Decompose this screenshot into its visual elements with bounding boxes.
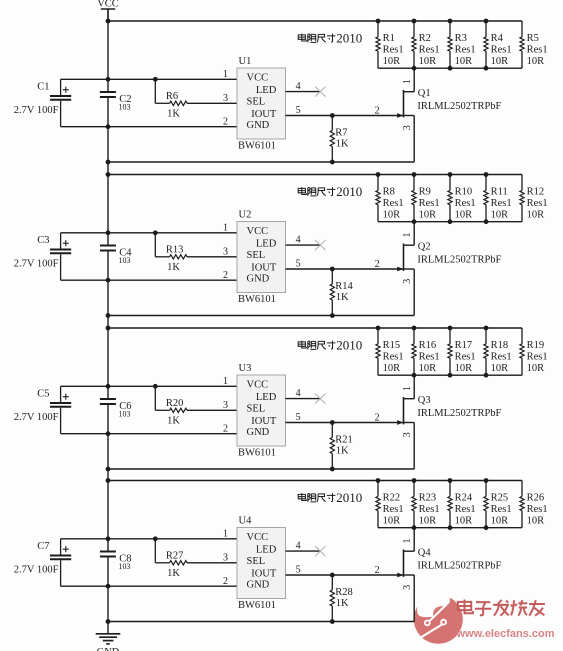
svg-text:SEL: SEL: [247, 404, 266, 415]
svg-text:3: 3: [223, 93, 228, 104]
junction top of R15: [376, 326, 381, 331]
capacitor C6: [100, 399, 132, 419]
svg-text:2: 2: [223, 117, 228, 128]
junction rail return block 4: [106, 619, 111, 624]
svg-text:IOUT: IOUT: [251, 568, 277, 579]
wire SEL pin 3 block 2: [187, 256, 237, 258]
svg-text:Res1: Res1: [419, 504, 440, 515]
svg-text:2: 2: [375, 259, 380, 270]
wire source return block 2: [108, 315, 414, 317]
svg-text:Res1: Res1: [527, 198, 548, 209]
svg-text:3: 3: [402, 279, 413, 284]
svg-text:U2: U2: [239, 209, 252, 220]
svg-text:2010: 2010: [336, 490, 362, 505]
svg-text:R10: R10: [455, 187, 473, 198]
IC U3 BW6101: [237, 363, 286, 458]
junction bottom of R2: [412, 66, 417, 71]
IC U4 BW6101: [237, 515, 286, 610]
junction R7 bottom: [330, 160, 335, 165]
svg-text:GND: GND: [247, 274, 270, 285]
svg-text:1K: 1K: [336, 446, 349, 457]
svg-text:10R: 10R: [419, 209, 437, 220]
svg-text:2: 2: [375, 413, 380, 424]
junction R14 top: [330, 267, 335, 272]
wire top rail block 1: [108, 20, 522, 22]
svg-text:4: 4: [296, 81, 301, 92]
capacitor C7: [14, 539, 71, 586]
svg-text:4: 4: [296, 541, 301, 552]
junction bottom of R4: [484, 66, 489, 71]
node VCC rail segment above C2: [107, 9, 109, 91]
svg-text:10R: 10R: [419, 56, 437, 67]
svg-text:R23: R23: [419, 493, 437, 504]
wire VCC pin row block 2: [61, 232, 237, 234]
svg-text:1K: 1K: [336, 598, 349, 609]
junction R27 tap: [153, 536, 158, 541]
resistor R5: [520, 21, 548, 68]
watermark logo elecfans: [414, 586, 463, 644]
wire source return block 3: [108, 468, 414, 470]
svg-text:10R: 10R: [419, 515, 437, 526]
svg-text:R16: R16: [419, 340, 437, 351]
junction top of R22: [376, 478, 381, 483]
wire VCC pin row block 1: [61, 78, 237, 80]
wire SEL pin 3 block 3: [187, 409, 237, 411]
junction R14 bottom: [330, 313, 335, 318]
svg-text:2.7V 100F: 2.7V 100F: [14, 565, 59, 576]
svg-text:R8: R8: [383, 187, 395, 198]
svg-text:R28: R28: [335, 587, 353, 598]
junction rail pin1 block 3: [106, 384, 111, 389]
wire VCC pin row block 4: [61, 538, 237, 540]
capacitor C1: [14, 79, 71, 126]
wire VCC pin row block 3: [61, 385, 237, 387]
resistor R21: [330, 423, 353, 470]
svg-text:R21: R21: [335, 435, 353, 446]
wire resistor bottom rail block 3: [378, 374, 522, 376]
svg-text:2010: 2010: [336, 337, 362, 352]
junction rail top block 3: [106, 326, 111, 331]
svg-text:1: 1: [402, 233, 413, 238]
capacitor C2: [100, 92, 132, 112]
svg-text:10R: 10R: [383, 209, 401, 220]
svg-text:10R: 10R: [491, 56, 509, 67]
svg-text:Res1: Res1: [383, 504, 404, 515]
junction rail pin2 block 1: [106, 124, 111, 129]
resistor R13: [155, 233, 187, 273]
resistor R9: [412, 175, 440, 222]
svg-text:LED: LED: [256, 544, 277, 555]
svg-text:R2: R2: [419, 33, 431, 44]
svg-text:R12: R12: [527, 187, 545, 198]
svg-text:SEL: SEL: [247, 556, 266, 567]
transistor Q2 IRLML2502TRPbF: [397, 222, 501, 316]
svg-text:IRLML2502TRPbF: IRLML2502TRPbF: [417, 255, 501, 266]
svg-text:SEL: SEL: [247, 250, 266, 261]
resistor R20: [155, 386, 187, 426]
svg-text:10R: 10R: [383, 515, 401, 526]
svg-text:10R: 10R: [527, 363, 545, 374]
junction bottom of R11: [484, 219, 489, 224]
svg-text:Res1: Res1: [527, 44, 548, 55]
wire resistor bottom rail block 1: [378, 67, 522, 69]
resistor R8: [376, 175, 404, 222]
svg-text:IOUT: IOUT: [251, 416, 277, 427]
svg-text:R6: R6: [166, 91, 178, 102]
junction top of R2: [412, 19, 417, 24]
svg-text:3: 3: [223, 553, 228, 564]
svg-text:10R: 10R: [383, 56, 401, 67]
svg-text:LED: LED: [256, 392, 277, 403]
resistor R27: [155, 539, 187, 579]
junction rail pin2 block 4: [106, 584, 111, 589]
junction top of R17: [448, 326, 453, 331]
svg-text:Res1: Res1: [491, 44, 512, 55]
svg-text:2.7V 100F: 2.7V 100F: [14, 259, 59, 270]
wire GND pin row block 1: [61, 126, 237, 128]
node VCC rail segment above C6: [107, 252, 109, 399]
svg-text:10R: 10R: [455, 209, 473, 220]
junction top of R25: [484, 478, 489, 483]
svg-text:VCC: VCC: [247, 532, 269, 543]
svg-text:Res1: Res1: [383, 198, 404, 209]
wire IOUT pin 5 to gate block 1: [286, 115, 404, 117]
no-connect X: [315, 87, 326, 97]
wire resistor bottom rail block 4: [378, 527, 522, 529]
svg-text:5: 5: [296, 564, 301, 575]
resistor R6: [155, 79, 187, 119]
wire GND pin row block 3: [61, 433, 237, 435]
svg-text:BW6101: BW6101: [238, 600, 276, 611]
svg-text:SEL: SEL: [247, 97, 266, 108]
no-connect X: [315, 240, 326, 250]
junction rail return block 2: [106, 313, 111, 318]
svg-text:10R: 10R: [527, 209, 545, 220]
svg-text:R24: R24: [455, 493, 473, 504]
resistor R25: [484, 481, 512, 528]
svg-text:1: 1: [223, 529, 228, 540]
resistor R24: [448, 481, 476, 528]
svg-text:R26: R26: [527, 493, 545, 504]
wire LED pin 4 block 3: [286, 398, 322, 400]
svg-text:GND: GND: [247, 120, 270, 131]
svg-text:Res1: Res1: [383, 44, 404, 55]
wire LED pin 4 block 2: [286, 244, 322, 246]
svg-text:1K: 1K: [167, 109, 180, 120]
svg-text:2010: 2010: [336, 30, 362, 45]
svg-text:R1: R1: [383, 33, 395, 44]
junction bottom of R3: [448, 66, 453, 71]
svg-text:VCC: VCC: [247, 380, 269, 391]
junction top of R23: [412, 478, 417, 483]
resistor R18: [484, 328, 512, 375]
resistor R26: [520, 481, 548, 528]
junction R21 top: [330, 420, 335, 425]
label resistor-size 2010: [298, 490, 362, 505]
svg-text:BW6101: BW6101: [238, 140, 276, 151]
junction rail top block 4: [106, 478, 111, 483]
svg-text:R3: R3: [455, 33, 467, 44]
svg-text:BW6101: BW6101: [238, 294, 276, 305]
svg-text:BW6101: BW6101: [238, 447, 276, 458]
svg-text:1: 1: [223, 376, 228, 387]
svg-text:10R: 10R: [419, 363, 437, 374]
node VCC rail segment above C4: [107, 98, 109, 245]
svg-text:R15: R15: [383, 340, 401, 351]
resistor R15: [376, 328, 404, 375]
svg-text:Q4: Q4: [418, 548, 432, 559]
svg-text:U4: U4: [239, 515, 253, 526]
svg-text:Q2: Q2: [418, 242, 431, 253]
svg-text:2: 2: [375, 565, 380, 576]
resistor R12: [520, 175, 548, 222]
svg-text:1: 1: [223, 223, 228, 234]
junction bottom of R9: [412, 219, 417, 224]
svg-text:LED: LED: [256, 85, 277, 96]
resistor R10: [448, 175, 476, 222]
wire top rail block 2: [108, 174, 522, 176]
junction bottom of R16: [412, 373, 417, 378]
junction bottom of R25: [484, 525, 489, 530]
transistor Q3 IRLML2502TRPbF: [397, 375, 501, 469]
svg-text:3: 3: [402, 585, 413, 590]
junction top of R9: [412, 172, 417, 177]
svg-text:103: 103: [119, 562, 131, 571]
svg-text:2010: 2010: [336, 184, 362, 199]
svg-text:10R: 10R: [491, 209, 509, 220]
resistor R14: [330, 269, 353, 316]
svg-text:1: 1: [402, 539, 413, 544]
resistor R2: [412, 21, 440, 68]
svg-text:R4: R4: [491, 33, 504, 44]
IC U2 BW6101: [237, 209, 286, 304]
junction bottom of R23: [412, 525, 417, 530]
junction R13 tap: [153, 230, 158, 235]
svg-text:103: 103: [119, 410, 131, 419]
svg-text:Res1: Res1: [491, 504, 512, 515]
svg-text:1K: 1K: [167, 262, 180, 273]
svg-text:Res1: Res1: [383, 351, 404, 362]
svg-text:Res1: Res1: [491, 198, 512, 209]
resistor R7: [330, 116, 349, 163]
resistor R1: [376, 21, 404, 68]
svg-text:Q1: Q1: [418, 88, 431, 99]
svg-text:2: 2: [223, 424, 228, 435]
junction top of R18: [484, 326, 489, 331]
svg-text:R25: R25: [491, 493, 509, 504]
transistor Q4 IRLML2502TRPbF: [397, 528, 501, 622]
junction rail pin1 block 1: [106, 77, 111, 82]
junction rail return block 3: [106, 467, 111, 472]
svg-text:IRLML2502TRPbF: IRLML2502TRPbF: [417, 101, 501, 112]
junction top of R24: [448, 478, 453, 483]
junction R28 top: [330, 573, 335, 578]
svg-text:Q3: Q3: [418, 395, 431, 406]
capacitor C4: [100, 246, 132, 266]
resistor R17: [448, 328, 476, 375]
svg-text:VCC: VCC: [97, 0, 119, 10]
svg-text:2: 2: [223, 576, 228, 587]
label resistor-size 2010: [298, 30, 362, 45]
svg-text:C7: C7: [37, 541, 49, 552]
svg-text:C3: C3: [37, 235, 49, 246]
svg-text:10R: 10R: [527, 515, 545, 526]
svg-text:10R: 10R: [527, 56, 545, 67]
junction rail return block 1: [106, 160, 111, 165]
svg-text:1K: 1K: [167, 568, 180, 579]
svg-text:1K: 1K: [336, 292, 349, 303]
svg-text:5: 5: [296, 105, 301, 116]
capacitor C5: [14, 386, 71, 433]
junction R28 bottom: [330, 619, 335, 624]
no-connect X: [315, 394, 326, 404]
resistor R11: [484, 175, 512, 222]
wire GND pin row block 4: [61, 585, 237, 587]
svg-text:R19: R19: [527, 340, 545, 351]
svg-text:2.7V 100F: 2.7V 100F: [14, 105, 59, 116]
svg-text:3: 3: [402, 432, 413, 437]
IC U1 BW6101: [237, 56, 286, 151]
junction top of R1: [376, 19, 381, 24]
svg-text:Res1: Res1: [491, 351, 512, 362]
svg-text:R14: R14: [335, 281, 353, 292]
node GND rail segment: [107, 558, 109, 634]
junction bottom of R17: [448, 373, 453, 378]
junction rail pin2 block 2: [106, 278, 111, 283]
svg-text:Res1: Res1: [455, 351, 476, 362]
svg-text:4: 4: [296, 235, 301, 246]
svg-text:10R: 10R: [455, 515, 473, 526]
node VCC rail segment above C8: [107, 405, 109, 551]
label resistor-size 2010: [298, 337, 362, 352]
svg-text:R5: R5: [527, 33, 539, 44]
junction top of R4: [484, 19, 489, 24]
svg-text:IOUT: IOUT: [251, 109, 277, 120]
power symbol VCC: [97, 0, 119, 21]
svg-text:R27: R27: [166, 551, 184, 562]
junction top of R10: [448, 172, 453, 177]
wire source return block 1: [108, 161, 414, 163]
svg-text:2: 2: [223, 270, 228, 281]
junction rail pin1 block 4: [106, 536, 111, 541]
junction rail top block 1: [106, 19, 111, 24]
svg-text:10R: 10R: [491, 515, 509, 526]
svg-text:1K: 1K: [167, 416, 180, 427]
svg-text:Res1: Res1: [419, 44, 440, 55]
svg-text:Res1: Res1: [527, 351, 548, 362]
svg-text:R22: R22: [383, 493, 401, 504]
svg-text:www.elecfans.com: www.elecfans.com: [456, 628, 555, 640]
transistor Q1 IRLML2502TRPbF: [397, 68, 501, 162]
svg-text:4: 4: [296, 388, 301, 399]
svg-text:R9: R9: [419, 187, 431, 198]
junction bottom of R10: [448, 219, 453, 224]
svg-text:VCC: VCC: [247, 226, 269, 237]
svg-text:2.7V 100F: 2.7V 100F: [14, 412, 59, 423]
svg-text:LED: LED: [256, 238, 277, 249]
svg-text:IOUT: IOUT: [251, 262, 277, 273]
svg-text:Res1: Res1: [455, 504, 476, 515]
junction rail pin1 block 2: [106, 230, 111, 235]
junction bottom of R24: [448, 525, 453, 530]
svg-text:Res1: Res1: [419, 198, 440, 209]
svg-text:10R: 10R: [383, 363, 401, 374]
svg-text:GND: GND: [247, 580, 270, 591]
svg-text:VCC: VCC: [247, 73, 269, 84]
svg-text:R7: R7: [335, 128, 347, 139]
svg-text:GND: GND: [247, 427, 270, 438]
wire LED pin 4 block 4: [286, 550, 322, 552]
junction R20 tap: [153, 384, 158, 389]
ground: [96, 634, 121, 651]
label resistor-size 2010: [298, 184, 362, 199]
junction top of R11: [484, 172, 489, 177]
junction top of R16: [412, 326, 417, 331]
resistor R28: [330, 575, 353, 622]
junction rail top block 2: [106, 172, 111, 177]
svg-text:C1: C1: [37, 82, 49, 93]
svg-text:103: 103: [119, 256, 131, 265]
wire IOUT pin 5 to gate block 3: [286, 422, 404, 424]
wire SEL pin 3 block 1: [187, 102, 237, 104]
svg-text:5: 5: [296, 412, 301, 423]
svg-text:R13: R13: [166, 245, 184, 256]
svg-text:1: 1: [402, 386, 413, 391]
svg-text:U1: U1: [239, 56, 252, 67]
wire IOUT pin 5 to gate block 2: [286, 268, 404, 270]
junction rail pin2 block 3: [106, 431, 111, 436]
no-connect X: [315, 546, 326, 556]
junction R21 bottom: [330, 467, 335, 472]
svg-text:R18: R18: [491, 340, 509, 351]
svg-text:C5: C5: [37, 389, 49, 400]
resistor R16: [412, 328, 440, 375]
wire resistor bottom rail block 2: [378, 221, 522, 223]
svg-text:10R: 10R: [491, 363, 509, 374]
wire top rail block 3: [108, 327, 522, 329]
junction R7 top: [330, 113, 335, 118]
svg-text:Res1: Res1: [419, 351, 440, 362]
resistor R19: [520, 328, 548, 375]
svg-text:3: 3: [402, 125, 413, 130]
svg-text:2: 2: [375, 106, 380, 117]
svg-text:GND: GND: [97, 647, 120, 651]
svg-text:1K: 1K: [336, 139, 349, 150]
capacitor C8: [100, 552, 132, 572]
resistor R3: [448, 21, 476, 68]
svg-text:10R: 10R: [455, 56, 473, 67]
svg-text:R11: R11: [491, 187, 508, 198]
junction top of R8: [376, 172, 381, 177]
svg-text:Res1: Res1: [455, 198, 476, 209]
wire top rail block 4: [108, 480, 522, 482]
svg-text:103: 103: [119, 103, 131, 112]
svg-text:1: 1: [402, 79, 413, 84]
resistor R4: [484, 21, 512, 68]
wire source return block 4: [108, 621, 414, 623]
svg-text:IRLML2502TRPbF: IRLML2502TRPbF: [417, 561, 501, 572]
svg-text:Res1: Res1: [527, 504, 548, 515]
junction bottom of R18: [484, 373, 489, 378]
svg-text:IRLML2502TRPbF: IRLML2502TRPbF: [417, 408, 501, 419]
watermark text dianzifashaoyou: [458, 600, 545, 616]
svg-text:10R: 10R: [455, 363, 473, 374]
junction top of R3: [448, 19, 453, 24]
svg-text:U3: U3: [239, 363, 252, 374]
resistor R22: [376, 481, 404, 528]
wire LED pin 4 block 1: [286, 91, 322, 93]
wire SEL pin 3 block 4: [187, 562, 237, 564]
